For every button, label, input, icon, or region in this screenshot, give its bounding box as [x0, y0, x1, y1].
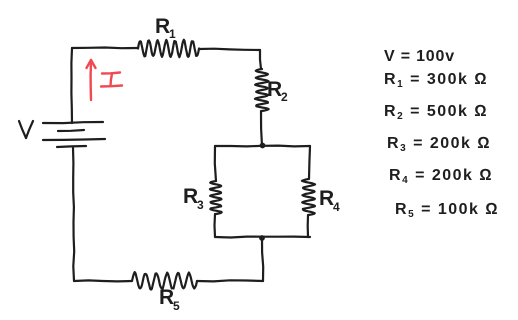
svg-text:2: 2: [281, 90, 288, 104]
svg-text:4: 4: [333, 200, 340, 214]
svg-text:R2 = 500k Ω: R2 = 500k Ω: [384, 103, 488, 122]
svg-text:R: R: [155, 15, 170, 38]
svg-text:R1 = 300k Ω: R1 = 300k Ω: [384, 71, 488, 90]
svg-text:R: R: [267, 78, 282, 101]
svg-text:3: 3: [197, 198, 204, 212]
svg-text:R: R: [159, 286, 174, 309]
svg-text:5: 5: [173, 299, 180, 313]
svg-text:R4 = 200k Ω: R4 = 200k Ω: [389, 167, 493, 186]
svg-text:R: R: [319, 187, 334, 210]
svg-text:R3 = 200k Ω: R3 = 200k Ω: [387, 135, 491, 154]
svg-text:R: R: [183, 185, 198, 208]
svg-text:R5 = 100k Ω: R5 = 100k Ω: [395, 201, 499, 220]
svg-text:1: 1: [169, 27, 176, 41]
svg-text:V = 100v: V = 100v: [384, 48, 455, 65]
